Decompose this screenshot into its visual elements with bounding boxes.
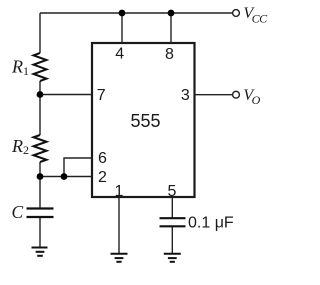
svg-text:3: 3: [181, 87, 190, 104]
svg-text:8: 8: [165, 46, 174, 63]
svg-text:0.1 μF: 0.1 μF: [188, 215, 234, 232]
svg-text:7: 7: [97, 87, 106, 104]
svg-text:5: 5: [168, 183, 177, 200]
svg-text:4: 4: [115, 46, 124, 63]
svg-text:6: 6: [98, 150, 107, 167]
svg-text:2: 2: [98, 169, 107, 186]
svg-text:C: C: [12, 202, 24, 222]
svg-text:555: 555: [130, 111, 160, 131]
svg-text:1: 1: [115, 183, 124, 200]
